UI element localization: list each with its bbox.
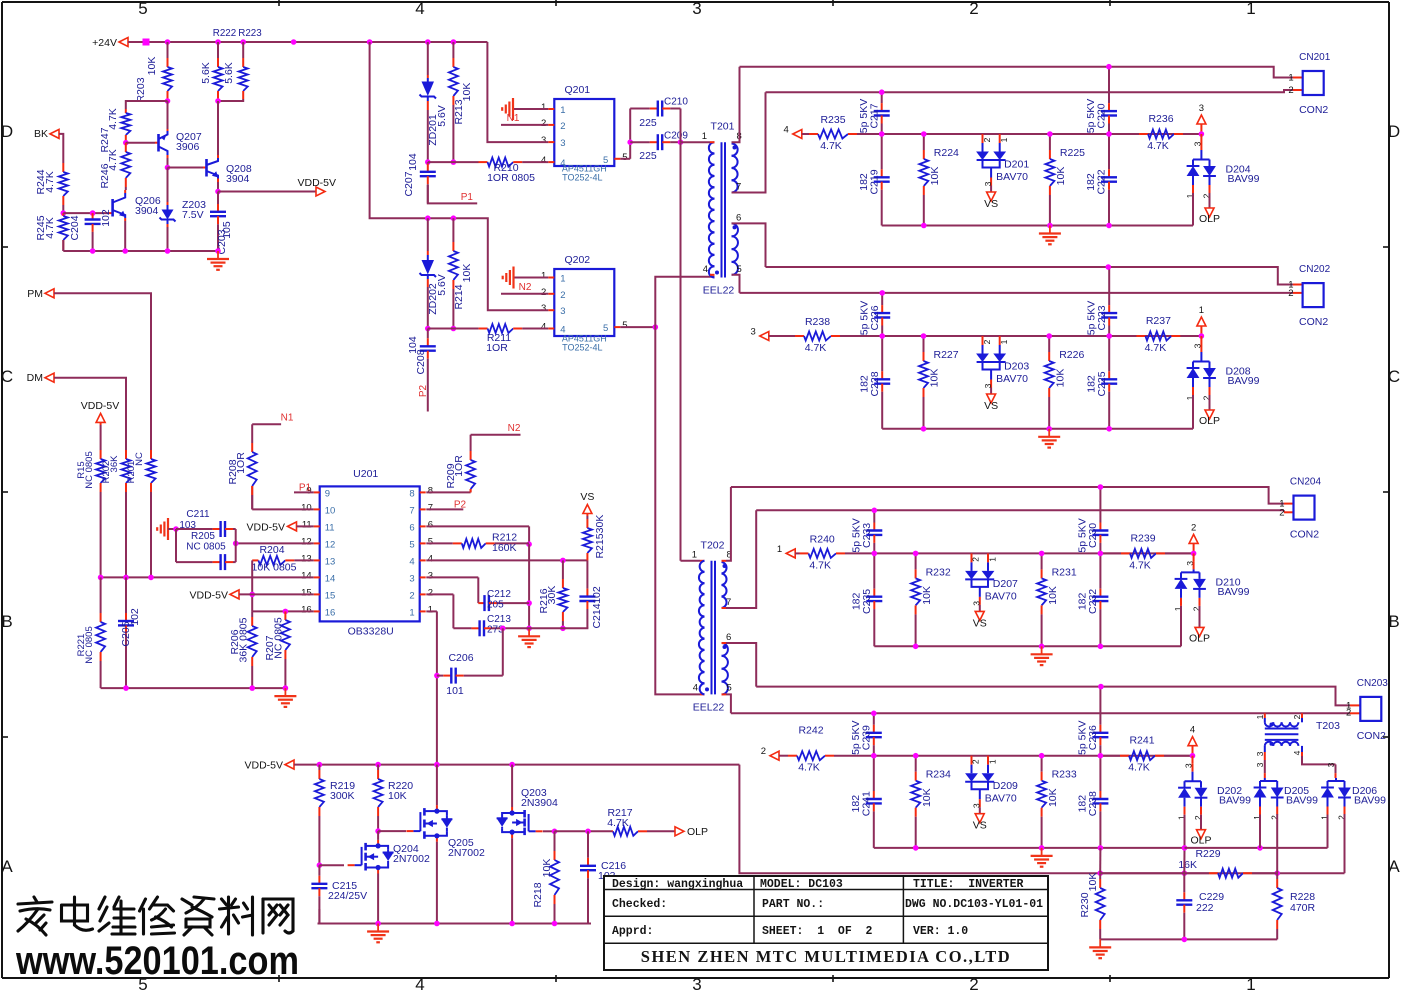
node main row — [1106, 131, 1112, 137]
wire PM net — [54, 293, 151, 440]
resistor R205 as pads — [176, 561, 213, 563]
svg-text:Q202: Q202 — [564, 254, 590, 266]
capacitor C222 — [1108, 134, 1110, 169]
wire T202 pin6 net — [722, 642, 727, 644]
node gnd row C229 — [1182, 937, 1188, 943]
svg-text:10K: 10K — [146, 57, 158, 76]
capacitor C215 — [318, 865, 320, 876]
net VDD-5V output port — [218, 191, 316, 193]
svg-text:R240: R240 — [810, 533, 835, 545]
node ZD202 top — [425, 215, 431, 221]
svg-text:D201: D201 — [1004, 159, 1029, 171]
wire block main row — [874, 552, 1193, 554]
node VDD row — [317, 762, 323, 768]
svg-text:C225: C225 — [1096, 371, 1108, 396]
svg-text:N1: N1 — [507, 113, 520, 124]
wire Q203 drain column — [511, 765, 513, 807]
wire U201 pin3 — [426, 576, 478, 578]
wire CN203 pin2 rail — [731, 712, 1350, 714]
svg-text:R231: R231 — [1052, 566, 1077, 578]
node R219 bottom gate row — [317, 862, 323, 868]
svg-text:VDD-5V: VDD-5V — [246, 521, 285, 533]
svg-text:1: 1 — [428, 604, 433, 615]
ground block rail — [1041, 848, 1043, 856]
svg-text:3: 3 — [1255, 751, 1265, 756]
connector CN202 — [1303, 283, 1324, 307]
svg-text:1: 1 — [1199, 305, 1204, 316]
svg-text:2: 2 — [982, 137, 992, 142]
capacitor C220 — [1108, 67, 1110, 103]
svg-text:+24V: +24V — [92, 37, 117, 49]
node up arrow — [1199, 333, 1205, 339]
resistor R220 — [377, 765, 379, 770]
node R229 row R230 — [1097, 870, 1103, 876]
node rail R1 — [913, 845, 919, 851]
wire CN204 pin2 rail — [756, 509, 1284, 511]
wire Q203 gate to node — [543, 830, 555, 832]
node C206 left — [434, 673, 440, 679]
svg-text:C212: C212 — [487, 589, 511, 600]
svg-text:R226: R226 — [1059, 349, 1084, 361]
svg-text:14: 14 — [325, 573, 336, 584]
svg-text:R236: R236 — [1148, 113, 1173, 125]
wire Q201 pin5 — [620, 158, 630, 160]
svg-text:224/25V: 224/25V — [328, 890, 367, 902]
node R244 R245 junction — [61, 210, 67, 216]
IC Q201 AP4511GH — [554, 99, 614, 166]
svg-text:C: C — [1388, 367, 1400, 386]
svg-text:13: 13 — [301, 553, 312, 564]
svg-text:1OR: 1OR — [235, 452, 247, 474]
svg-text:R235: R235 — [820, 114, 845, 126]
wire bottom right gnd row — [1100, 938, 1277, 940]
resistor R239 — [1100, 552, 1121, 554]
resistor R237 — [1109, 335, 1136, 337]
svg-text:3904: 3904 — [226, 173, 250, 185]
svg-text:TO252-4L: TO252-4L — [562, 173, 602, 183]
wire bottom left ground row — [101, 687, 286, 689]
svg-text:4: 4 — [415, 975, 424, 992]
svg-text:DWG NO.DC103-YL01-01: DWG NO.DC103-YL01-01 — [905, 898, 1043, 911]
wire CN201 pin1 rail — [740, 67, 1294, 78]
resistor R216 — [562, 560, 564, 579]
svg-text:10K: 10K — [461, 264, 473, 283]
svg-text:2: 2 — [969, 0, 978, 18]
node rail R2 — [1047, 223, 1053, 229]
transistor Q204 2N7002 — [377, 840, 379, 846]
svg-text:10K: 10K — [1087, 873, 1099, 892]
svg-text:N2: N2 — [508, 423, 521, 434]
svg-text:1: 1 — [541, 102, 546, 113]
svg-text:D207: D207 — [993, 578, 1018, 590]
net 4 port — [1192, 746, 1194, 756]
svg-text:EEL22: EEL22 — [693, 701, 725, 713]
node R213 bottom — [451, 159, 457, 165]
svg-text:6: 6 — [428, 519, 433, 530]
svg-text:3: 3 — [409, 573, 414, 584]
node main row — [871, 753, 877, 759]
wire Q204 source — [377, 874, 379, 924]
svg-text:16K: 16K — [1178, 859, 1197, 871]
node loop right — [233, 541, 239, 547]
wire mid column — [528, 544, 530, 628]
node gnd row R206 — [249, 685, 255, 691]
svg-text:NC 0805: NC 0805 — [273, 617, 285, 659]
wire Q202 pin5 — [620, 326, 655, 328]
svg-text:102: 102 — [591, 586, 603, 604]
svg-text:6: 6 — [409, 522, 414, 533]
svg-text:OB3328U: OB3328U — [348, 625, 394, 637]
node rail2 C226 — [879, 290, 885, 296]
svg-text:222: 222 — [1196, 902, 1214, 914]
svg-text:1: 1 — [988, 557, 998, 562]
node up arrow — [1190, 753, 1196, 759]
diode D206 BAV99 — [1328, 780, 1345, 782]
wire Q204 drain column — [377, 831, 379, 840]
wire +24V to Q201 pin3 — [487, 42, 548, 142]
svg-text:4: 4 — [784, 125, 789, 136]
svg-text:R238: R238 — [805, 316, 830, 328]
svg-text:D: D — [1388, 122, 1400, 141]
wire block main row — [882, 133, 1202, 135]
svg-text:2: 2 — [982, 339, 992, 344]
svg-text:SHEN ZHEN MTC MULTIMEDIA CO.,L: SHEN ZHEN MTC MULTIMEDIA CO.,LTD — [641, 947, 1011, 966]
svg-text:5.6K: 5.6K — [223, 62, 235, 84]
resistor R217 — [612, 830, 613, 832]
wire Q205 source — [436, 842, 438, 924]
svg-text:2: 2 — [541, 287, 546, 298]
transformer T201 — [709, 142, 715, 153]
resistor R210 — [479, 161, 488, 163]
diode D205 BAV99 — [1260, 780, 1277, 782]
svg-text:C238: C238 — [1087, 791, 1099, 816]
wire T201 pin4 net — [655, 277, 714, 695]
svg-text:R205: R205 — [191, 531, 215, 542]
svg-text:3: 3 — [983, 181, 993, 186]
net P2 stub — [427, 372, 429, 412]
svg-text:BAV99: BAV99 — [1286, 795, 1318, 807]
capacitor C235 — [873, 553, 875, 588]
svg-text:3: 3 — [541, 135, 546, 146]
node rail2 C217 — [879, 89, 885, 95]
node R214 top — [451, 215, 457, 221]
svg-text:4.7K: 4.7K — [1145, 342, 1167, 354]
node C204 top — [90, 210, 96, 216]
node +24V junction — [367, 39, 373, 45]
svg-text:1OR 0805: 1OR 0805 — [487, 172, 535, 184]
svg-text:3: 3 — [560, 138, 565, 149]
capacitor C239 — [873, 713, 875, 725]
svg-text:1: 1 — [1255, 714, 1265, 719]
svg-text:5: 5 — [622, 152, 627, 163]
node ZD201 C207 — [425, 159, 431, 165]
svg-text:4: 4 — [693, 683, 698, 694]
svg-text:C: C — [1, 367, 13, 386]
wire R204 left column — [251, 560, 253, 611]
svg-text:10: 10 — [301, 502, 312, 513]
svg-text:VS: VS — [973, 820, 987, 832]
node bottom rail — [552, 921, 558, 927]
svg-text:VER: 1.0: VER: 1.0 — [913, 925, 968, 938]
wire VDD to R229 row — [739, 765, 1100, 874]
svg-text:6: 6 — [736, 213, 741, 224]
svg-text:4: 4 — [428, 553, 433, 564]
svg-text:P2: P2 — [454, 499, 467, 510]
svg-text:T201: T201 — [711, 121, 735, 133]
diode D202 BAV99 — [1192, 756, 1194, 764]
resistor R234 — [915, 756, 917, 772]
diode D209 BAV70 — [971, 756, 973, 765]
wire CN204 pin1 rail — [731, 487, 1284, 504]
ground block rail — [1049, 226, 1051, 234]
IC U201 OB3328U — [320, 486, 420, 621]
svg-text:4.7K: 4.7K — [107, 149, 119, 171]
svg-text:PM: PM — [27, 288, 43, 300]
svg-text:R218: R218 — [532, 882, 544, 907]
svg-text:OLP: OLP — [687, 826, 708, 838]
node up arrow — [1199, 131, 1205, 137]
wire CN203 pin1 rail — [756, 687, 1350, 706]
diode D210 BAV99 — [1193, 553, 1195, 561]
wire T201 pin5 net — [731, 274, 733, 276]
svg-text:10K: 10K — [1055, 167, 1067, 186]
svg-text:5.6V: 5.6V — [436, 105, 448, 127]
svg-text:3: 3 — [751, 327, 756, 338]
wire U201 pin10 — [252, 508, 314, 510]
wire T203 pin4 — [1301, 746, 1303, 752]
svg-text:10K: 10K — [1047, 788, 1059, 807]
svg-text:300K: 300K — [330, 790, 355, 802]
svg-text:BAV99: BAV99 — [1228, 375, 1260, 387]
diode D204 BAV99 — [1200, 134, 1202, 142]
resistor R213 — [452, 42, 454, 58]
wire R229 row — [1100, 872, 1344, 874]
svg-text:NC 0805: NC 0805 — [84, 626, 95, 664]
wire Q205 gate row — [378, 830, 406, 832]
node rail1 C223 — [1106, 264, 1112, 270]
node Q207 base — [123, 140, 129, 146]
capacitor C230 — [1099, 487, 1101, 523]
svg-text:C211: C211 — [186, 509, 210, 520]
svg-text:2: 2 — [541, 118, 546, 129]
resistor R242 — [779, 755, 788, 757]
svg-text:T203: T203 — [1316, 720, 1340, 732]
resistor R204 — [252, 559, 258, 561]
svg-text:BK: BK — [34, 128, 48, 140]
svg-text:5.6V: 5.6V — [436, 274, 448, 296]
wire R245 corner — [62, 240, 64, 251]
node C213 mid — [526, 626, 532, 632]
svg-text:7: 7 — [409, 505, 414, 516]
resistor R215 — [586, 516, 588, 519]
node +24V junction — [291, 39, 297, 45]
svg-text:2N3904: 2N3904 — [521, 797, 558, 809]
svg-text:C213: C213 — [487, 614, 511, 625]
node +24V junction — [215, 39, 221, 45]
resistor R232 — [915, 553, 917, 569]
net 1 port — [1200, 326, 1202, 336]
wire block ground rail — [874, 847, 1185, 849]
node gnd row C205 — [123, 685, 129, 691]
svg-text:30K: 30K — [546, 586, 558, 605]
wire bias ground rail — [63, 250, 218, 252]
svg-text:C233: C233 — [861, 523, 873, 548]
ground block rail — [1048, 429, 1050, 437]
svg-text:BAV70: BAV70 — [985, 590, 1017, 602]
svg-text:B: B — [1, 612, 12, 631]
svg-text:1OR: 1OR — [453, 455, 465, 477]
net P1 stub — [428, 185, 477, 203]
node rail capR — [1106, 426, 1112, 432]
node rail R2 — [1039, 845, 1045, 851]
node R203 bottom — [165, 98, 171, 104]
ground bottom right — [1099, 939, 1101, 947]
svg-text:3: 3 — [692, 0, 701, 18]
svg-text:2: 2 — [969, 975, 978, 992]
wire VDD-5V row — [294, 764, 739, 766]
svg-text:C206: C206 — [448, 652, 473, 664]
svg-text:5: 5 — [409, 539, 414, 550]
wire T201 pin1 node down to T202 pin1 — [680, 142, 682, 561]
node main row — [1039, 551, 1045, 557]
capacitor C238 — [1099, 756, 1101, 791]
svg-text:C210: C210 — [664, 97, 688, 108]
junction square +24V — [143, 39, 150, 46]
svg-text:30K: 30K — [594, 515, 606, 534]
transistor Q206 — [111, 199, 114, 217]
svg-text:R239: R239 — [1130, 532, 1155, 544]
node pin14 R202 — [123, 575, 129, 581]
wire T201 pin8 riser — [731, 141, 733, 143]
svg-text:2: 2 — [560, 290, 565, 301]
resistor R229 — [1100, 872, 1209, 874]
svg-text:8: 8 — [409, 488, 414, 499]
svg-text:C228: C228 — [869, 371, 881, 396]
svg-text:4.7K: 4.7K — [44, 171, 56, 193]
svg-text:12: 12 — [325, 539, 336, 550]
node ground rail — [122, 248, 128, 254]
svg-text:225: 225 — [639, 150, 657, 162]
net N2 stub — [471, 434, 521, 436]
svg-text:CN202: CN202 — [1299, 264, 1331, 275]
svg-text:2N7002: 2N7002 — [448, 847, 485, 859]
svg-text:4.7K: 4.7K — [798, 762, 820, 774]
node rail capR — [1098, 845, 1104, 851]
wire T201 pin4 stub — [713, 274, 716, 276]
resistor R225 — [1049, 134, 1051, 150]
svg-text:16: 16 — [301, 604, 312, 615]
svg-text:CON2: CON2 — [1299, 104, 1328, 116]
svg-text:1: 1 — [988, 759, 998, 764]
svg-text:103: 103 — [179, 520, 196, 531]
wire R222 junction to Q208 collector — [217, 101, 219, 158]
title block grid — [604, 876, 1048, 970]
svg-text:OLP: OLP — [1189, 632, 1210, 644]
wire block4 capR to R229 row — [1099, 848, 1101, 873]
svg-text:P1: P1 — [299, 482, 312, 493]
capacitor C229 — [1183, 873, 1185, 892]
svg-text:225: 225 — [639, 117, 657, 129]
svg-text:C220: C220 — [1096, 103, 1108, 128]
svg-text:5.6K: 5.6K — [200, 62, 212, 84]
resistor R214 — [452, 218, 454, 242]
resistor R212 — [426, 542, 453, 544]
capacitor C216 — [587, 831, 589, 858]
node rail R2 — [1039, 644, 1045, 650]
node +24V junction — [240, 39, 246, 45]
capacitor C217 — [881, 92, 883, 103]
svg-text:4: 4 — [1292, 750, 1302, 755]
resistor R221 — [100, 577, 102, 613]
net OLP port R217 — [675, 827, 684, 836]
diode D203 BAV70 — [982, 336, 984, 345]
node C209 left — [627, 139, 633, 145]
wire bottom stage rail — [318, 923, 592, 925]
svg-text:1: 1 — [1246, 0, 1255, 18]
svg-text:3: 3 — [972, 601, 982, 606]
node C209 right / T201 pin1 — [678, 139, 684, 145]
resistor R244 — [62, 163, 64, 172]
node main row — [913, 753, 919, 759]
transformer T202 — [700, 561, 705, 572]
node pin14 R201 — [148, 575, 154, 581]
svg-text:10: 10 — [325, 505, 336, 516]
svg-text:5: 5 — [727, 683, 732, 694]
svg-text:C241: C241 — [861, 791, 873, 816]
svg-text:205: 205 — [487, 600, 504, 611]
wire C215 bottom — [318, 909, 320, 924]
node main row — [1098, 551, 1104, 557]
node ZD202 C208 — [425, 326, 431, 332]
svg-text:OLP: OLP — [1199, 213, 1220, 225]
connector CN201 — [1303, 71, 1324, 95]
svg-text:R222: R222 — [213, 28, 236, 39]
svg-text:www.520101.com: www.520101.com — [15, 939, 299, 983]
wire U201 pin4 row — [426, 559, 587, 561]
svg-text:7.5V: 7.5V — [182, 209, 204, 221]
connector CN203 — [1360, 697, 1381, 721]
svg-text:2: 2 — [1288, 288, 1293, 299]
wire block ground rail — [882, 428, 1193, 430]
capacitor C208 — [427, 329, 429, 339]
resistor R209 — [470, 435, 472, 451]
svg-text:3906: 3906 — [176, 141, 200, 153]
svg-text:10K: 10K — [541, 859, 553, 878]
svg-text:13: 13 — [325, 556, 336, 567]
node R229 row C229 — [1182, 870, 1188, 876]
svg-text:2: 2 — [1346, 707, 1351, 718]
capacitor C204 — [92, 213, 94, 219]
svg-text:10K: 10K — [1054, 369, 1066, 388]
node C206 riser — [500, 626, 506, 632]
wire Q205 drain column — [436, 765, 438, 806]
svg-text:C207: C207 — [403, 171, 415, 196]
svg-text:10K: 10K — [929, 167, 941, 186]
svg-text:4.7K: 4.7K — [607, 817, 629, 829]
svg-text:1: 1 — [560, 274, 565, 285]
node main row — [921, 131, 927, 137]
wire U201 pin8 — [426, 491, 470, 493]
resistor R206 — [251, 611, 253, 617]
wire ZD201 feed — [427, 42, 429, 75]
node up arrow — [1191, 551, 1197, 557]
node main row — [1106, 333, 1112, 339]
svg-text:C222: C222 — [1096, 169, 1108, 194]
ground bottom left — [284, 688, 286, 696]
svg-text:NC 0805: NC 0805 — [84, 451, 95, 489]
node rail1 C236 — [1098, 684, 1104, 690]
node rail2 C233 — [872, 508, 878, 514]
